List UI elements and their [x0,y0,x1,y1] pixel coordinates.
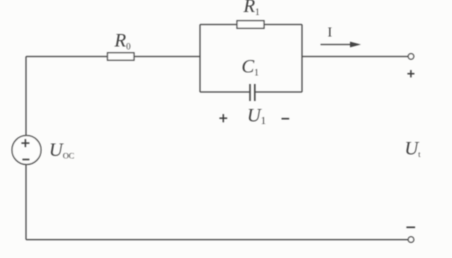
terminal + (top right) [408,54,414,60]
terminal - (bottom right) [408,237,414,243]
wire bottom horizontal [26,239,408,241]
wire top-left horizontal (left corner to R0) [26,56,108,58]
wire bottom branch left segment [200,91,250,93]
wire top branch left segment [200,24,237,26]
wire R0 to parallel block [134,56,200,58]
wire left vertical lower [25,165,27,240]
wire parallel block right vertical [301,25,303,93]
wire left vertical upper [25,57,27,136]
label + capacitor polarity [219,114,227,122]
wire top branch right segment [264,24,302,26]
label + inside source [21,139,29,147]
svg-text:I: I [327,26,332,41]
current arrow I [321,42,362,48]
resistor R0 [108,53,135,60]
capacitor C1 [250,84,255,101]
label - output polarity bottom [406,226,415,228]
label - inside source [22,159,29,161]
wire bottom branch right segment [255,91,302,93]
voltage source U_OC [12,136,41,165]
label - capacitor polarity [282,118,290,120]
resistor R1 [237,21,264,29]
label + output polarity top [407,70,414,77]
wire parallel block left vertical [199,25,201,93]
wire block to output terminal [302,56,408,58]
